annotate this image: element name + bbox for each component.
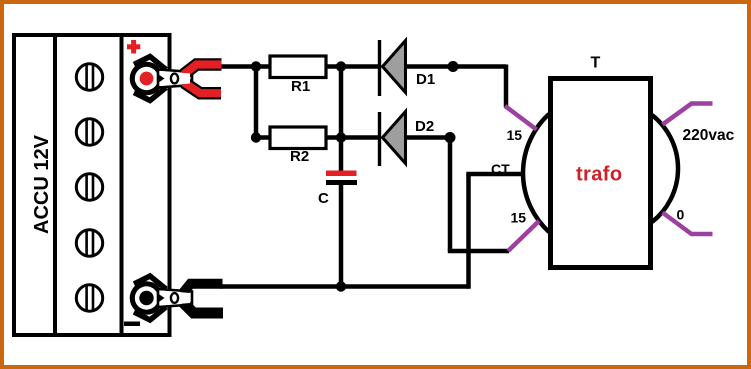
battery screw terminal 2: [76, 119, 102, 145]
wire: across to transformer 15 (lower): [448, 249, 509, 254]
svg-text:D2: D2: [415, 118, 434, 135]
battery screw terminal 1: [76, 64, 102, 90]
svg-text:trafo: trafo: [576, 164, 622, 186]
svg-text:R2: R2: [290, 148, 309, 165]
wire: diode D1 to node D: [405, 64, 506, 69]
primary lead 15 upper (purple): [505, 106, 537, 130]
node C1 junction dot (R1 right): [336, 61, 346, 71]
wire: bottom rail up to CT: [466, 174, 471, 289]
diode D1: [380, 40, 436, 96]
svg-text:15: 15: [511, 210, 527, 226]
secondary lead 220vac (purple): [663, 104, 713, 125]
wire: node C1 to diode D1: [341, 64, 379, 69]
plus polarity label: [127, 40, 140, 54]
wire: CT into transformer: [466, 172, 523, 177]
alligator clip negative (black): [130, 276, 223, 320]
svg-text:15: 15: [507, 127, 523, 143]
wire: node E down: [448, 138, 453, 252]
node B junction dot: [251, 132, 261, 142]
resistor R1: [256, 56, 341, 95]
wire: down to transformer 15 (upper): [504, 65, 509, 108]
resistor R2: [256, 127, 341, 165]
primary lead 15 lower (purple): [508, 221, 539, 251]
node C2 junction dot (R2 right): [336, 132, 346, 142]
wire: capacitor C to bottom rail: [339, 185, 344, 287]
alligator clip positive (red): [130, 57, 222, 101]
battery screw terminal 4: [76, 230, 102, 256]
svg-text:220vac: 220vac: [683, 127, 735, 144]
wire: positive clip to node A: [219, 64, 258, 69]
svg-text:ACCU 12V: ACCU 12V: [31, 134, 53, 234]
svg-text:D1: D1: [416, 71, 435, 88]
svg-text:C: C: [318, 190, 329, 207]
node A junction dot: [251, 61, 261, 71]
wire: diode D2 to node E: [405, 135, 450, 140]
svg-text:R1: R1: [291, 78, 310, 95]
svg-text:T: T: [591, 55, 601, 72]
wire: node A down to node B: [254, 67, 259, 138]
capacitor C: [318, 171, 357, 208]
node D junction dot: [448, 61, 459, 72]
secondary lead 0 (purple): [663, 213, 713, 235]
diode D2: [380, 112, 435, 167]
node E junction dot: [445, 132, 456, 143]
battery ACCU 12V: [14, 35, 170, 335]
svg-text:0: 0: [677, 207, 685, 223]
battery screw terminal 5: [76, 285, 102, 311]
transformer T: [523, 55, 678, 268]
wire: node C1 to node C2: [339, 67, 344, 138]
wire: node C2 to diode D2: [341, 135, 379, 140]
svg-text:CT: CT: [491, 161, 510, 177]
wire: node C2 down to capacitor C: [339, 138, 344, 172]
node F junction dot (capacitor to bottom rail): [336, 281, 346, 291]
minus polarity label: [124, 322, 140, 327]
wire: negative clip along bottom rail: [220, 284, 469, 289]
battery screw terminal 3: [76, 174, 102, 200]
